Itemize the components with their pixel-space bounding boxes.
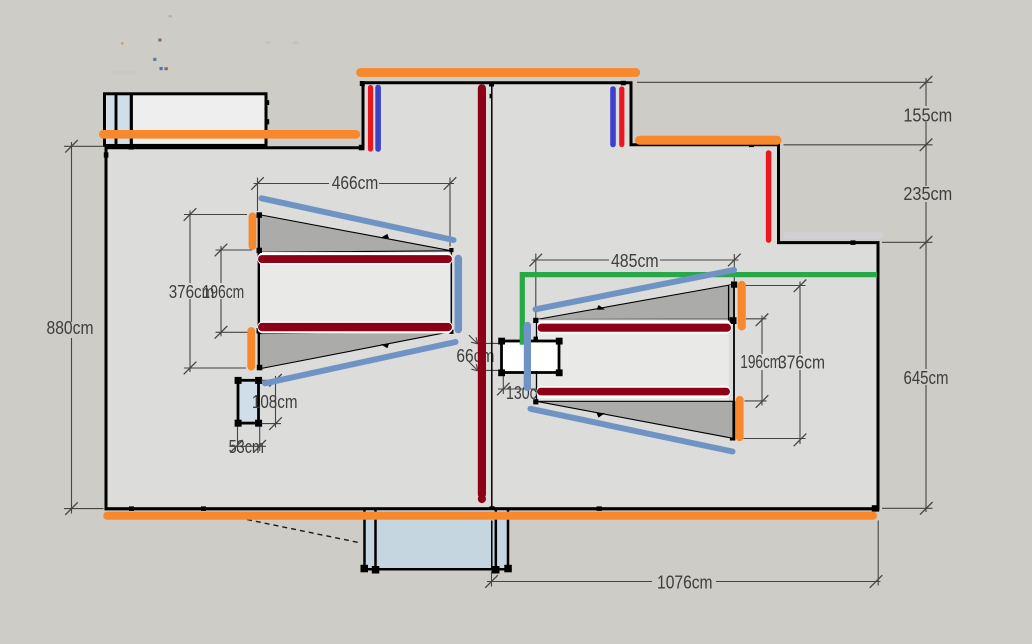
left horn: top maroon bar bbox=[258, 253, 453, 265]
orange bar top-centre wall bbox=[361, 68, 636, 77]
white machine rect bbox=[502, 341, 560, 373]
svg-text:645cm: 645cm bbox=[904, 368, 949, 388]
right horn: top triangle bbox=[537, 285, 733, 320]
red bar right step bbox=[766, 153, 772, 240]
svg-text:155cm: 155cm bbox=[903, 106, 952, 126]
bottom exterior rect bbox=[361, 509, 512, 574]
left horn: bottom triangle bbox=[259, 332, 452, 369]
dimension 66cm bbox=[456, 335, 499, 371]
right horn: bottom triangle bbox=[537, 401, 734, 438]
left horn: bottom hypotenuse arrow bbox=[381, 344, 390, 348]
left horn: top triangle bbox=[259, 215, 452, 253]
dimension 485cm bbox=[530, 251, 741, 321]
right horn: left edge line bbox=[536, 319, 538, 402]
dimension 155cm right bbox=[637, 76, 952, 151]
svg-text:880cm: 880cm bbox=[47, 318, 94, 338]
door bars left pair: blue bbox=[375, 88, 381, 150]
door bars right pair: blue bbox=[610, 89, 616, 145]
left horn: right mouth line bbox=[450, 248, 452, 333]
left horn: top blue diagonal bbox=[262, 198, 454, 240]
left horn: top-left orange bar bbox=[249, 216, 257, 246]
left horn: bottom-left orange bar bbox=[247, 331, 255, 367]
right horn: left blue vertical bar bbox=[524, 326, 531, 388]
right horn: top hypotenuse arrow bbox=[597, 305, 606, 310]
right horn: mouth strip bbox=[729, 285, 735, 321]
svg-text:108cm: 108cm bbox=[252, 392, 298, 412]
dimension 108cm bbox=[252, 374, 298, 430]
left horn: middle cavity bbox=[259, 252, 452, 333]
left horn: right blue vertical bar bbox=[455, 259, 463, 330]
dimension 53cm bbox=[229, 427, 266, 458]
right horn: middle cavity bbox=[537, 319, 729, 401]
door bars right pair: red bbox=[619, 89, 624, 145]
left horn: bottom maroon bar bbox=[258, 321, 453, 333]
svg-text:1076cm: 1076cm bbox=[657, 573, 713, 593]
dimension 376cm left bbox=[169, 208, 247, 374]
orange bar top-left wall bbox=[103, 130, 356, 139]
centre dividing wall line bbox=[491, 84, 493, 509]
right horn: bottom maroon bar bbox=[537, 386, 731, 398]
dimension 880cm left bbox=[47, 140, 104, 515]
dimension 130cm bbox=[497, 375, 565, 404]
blue bar through white rect bbox=[524, 326, 531, 388]
small window rect 108cm bbox=[238, 380, 259, 423]
dimension 196cm left bbox=[203, 244, 252, 339]
balcony slab top right bbox=[787, 231, 881, 239]
left horn: bottom blue diagonal bbox=[265, 342, 456, 383]
dimension 1076cm bottom bbox=[485, 521, 882, 593]
svg-text:485cm: 485cm bbox=[611, 251, 659, 271]
stray artifacts bbox=[111, 15, 299, 75]
orange bar right step wall bbox=[640, 136, 778, 145]
door bars left pair: red bbox=[368, 88, 373, 150]
centre wall maroon highlight bbox=[478, 84, 486, 503]
svg-text:235cm: 235cm bbox=[903, 184, 952, 204]
right horn: bottom hypotenuse arrow bbox=[597, 413, 606, 418]
bottom wall re-stroke bbox=[105, 507, 879, 510]
floor plan main outline bbox=[106, 83, 878, 509]
orange bar bottom wall bbox=[107, 512, 873, 520]
wall junction dots bbox=[104, 81, 879, 512]
svg-text:196cm: 196cm bbox=[203, 282, 245, 302]
dimension 645cm right bbox=[882, 242, 949, 514]
svg-text:196cm: 196cm bbox=[740, 352, 781, 372]
right horn: bottom-right orange bar bbox=[736, 400, 744, 438]
right horn: top maroon bar bbox=[537, 321, 732, 334]
dimension 466cm bbox=[251, 173, 456, 247]
left horn: left edge bbox=[258, 214, 260, 370]
right horn: top blue diagonal bbox=[536, 270, 735, 309]
green stub over white rect bbox=[520, 336, 525, 345]
dashed leader line bbox=[247, 520, 361, 544]
centre wall line through bottom rect bbox=[491, 521, 493, 571]
svg-text:66cm: 66cm bbox=[456, 346, 494, 366]
svg-text:466cm: 466cm bbox=[332, 173, 378, 193]
right horn: top-right orange bar bbox=[738, 285, 746, 326]
svg-text:376cm: 376cm bbox=[778, 353, 825, 373]
green wall line bbox=[522, 275, 877, 345]
right horn: bottom blue diagonal bbox=[531, 409, 733, 452]
bay window top left bbox=[105, 94, 267, 146]
dimension 376cm right bbox=[742, 280, 825, 447]
left horn: top hypotenuse arrow bbox=[381, 234, 390, 238]
dimension 235cm right bbox=[882, 145, 952, 249]
dimension 196cm right bbox=[740, 314, 781, 408]
